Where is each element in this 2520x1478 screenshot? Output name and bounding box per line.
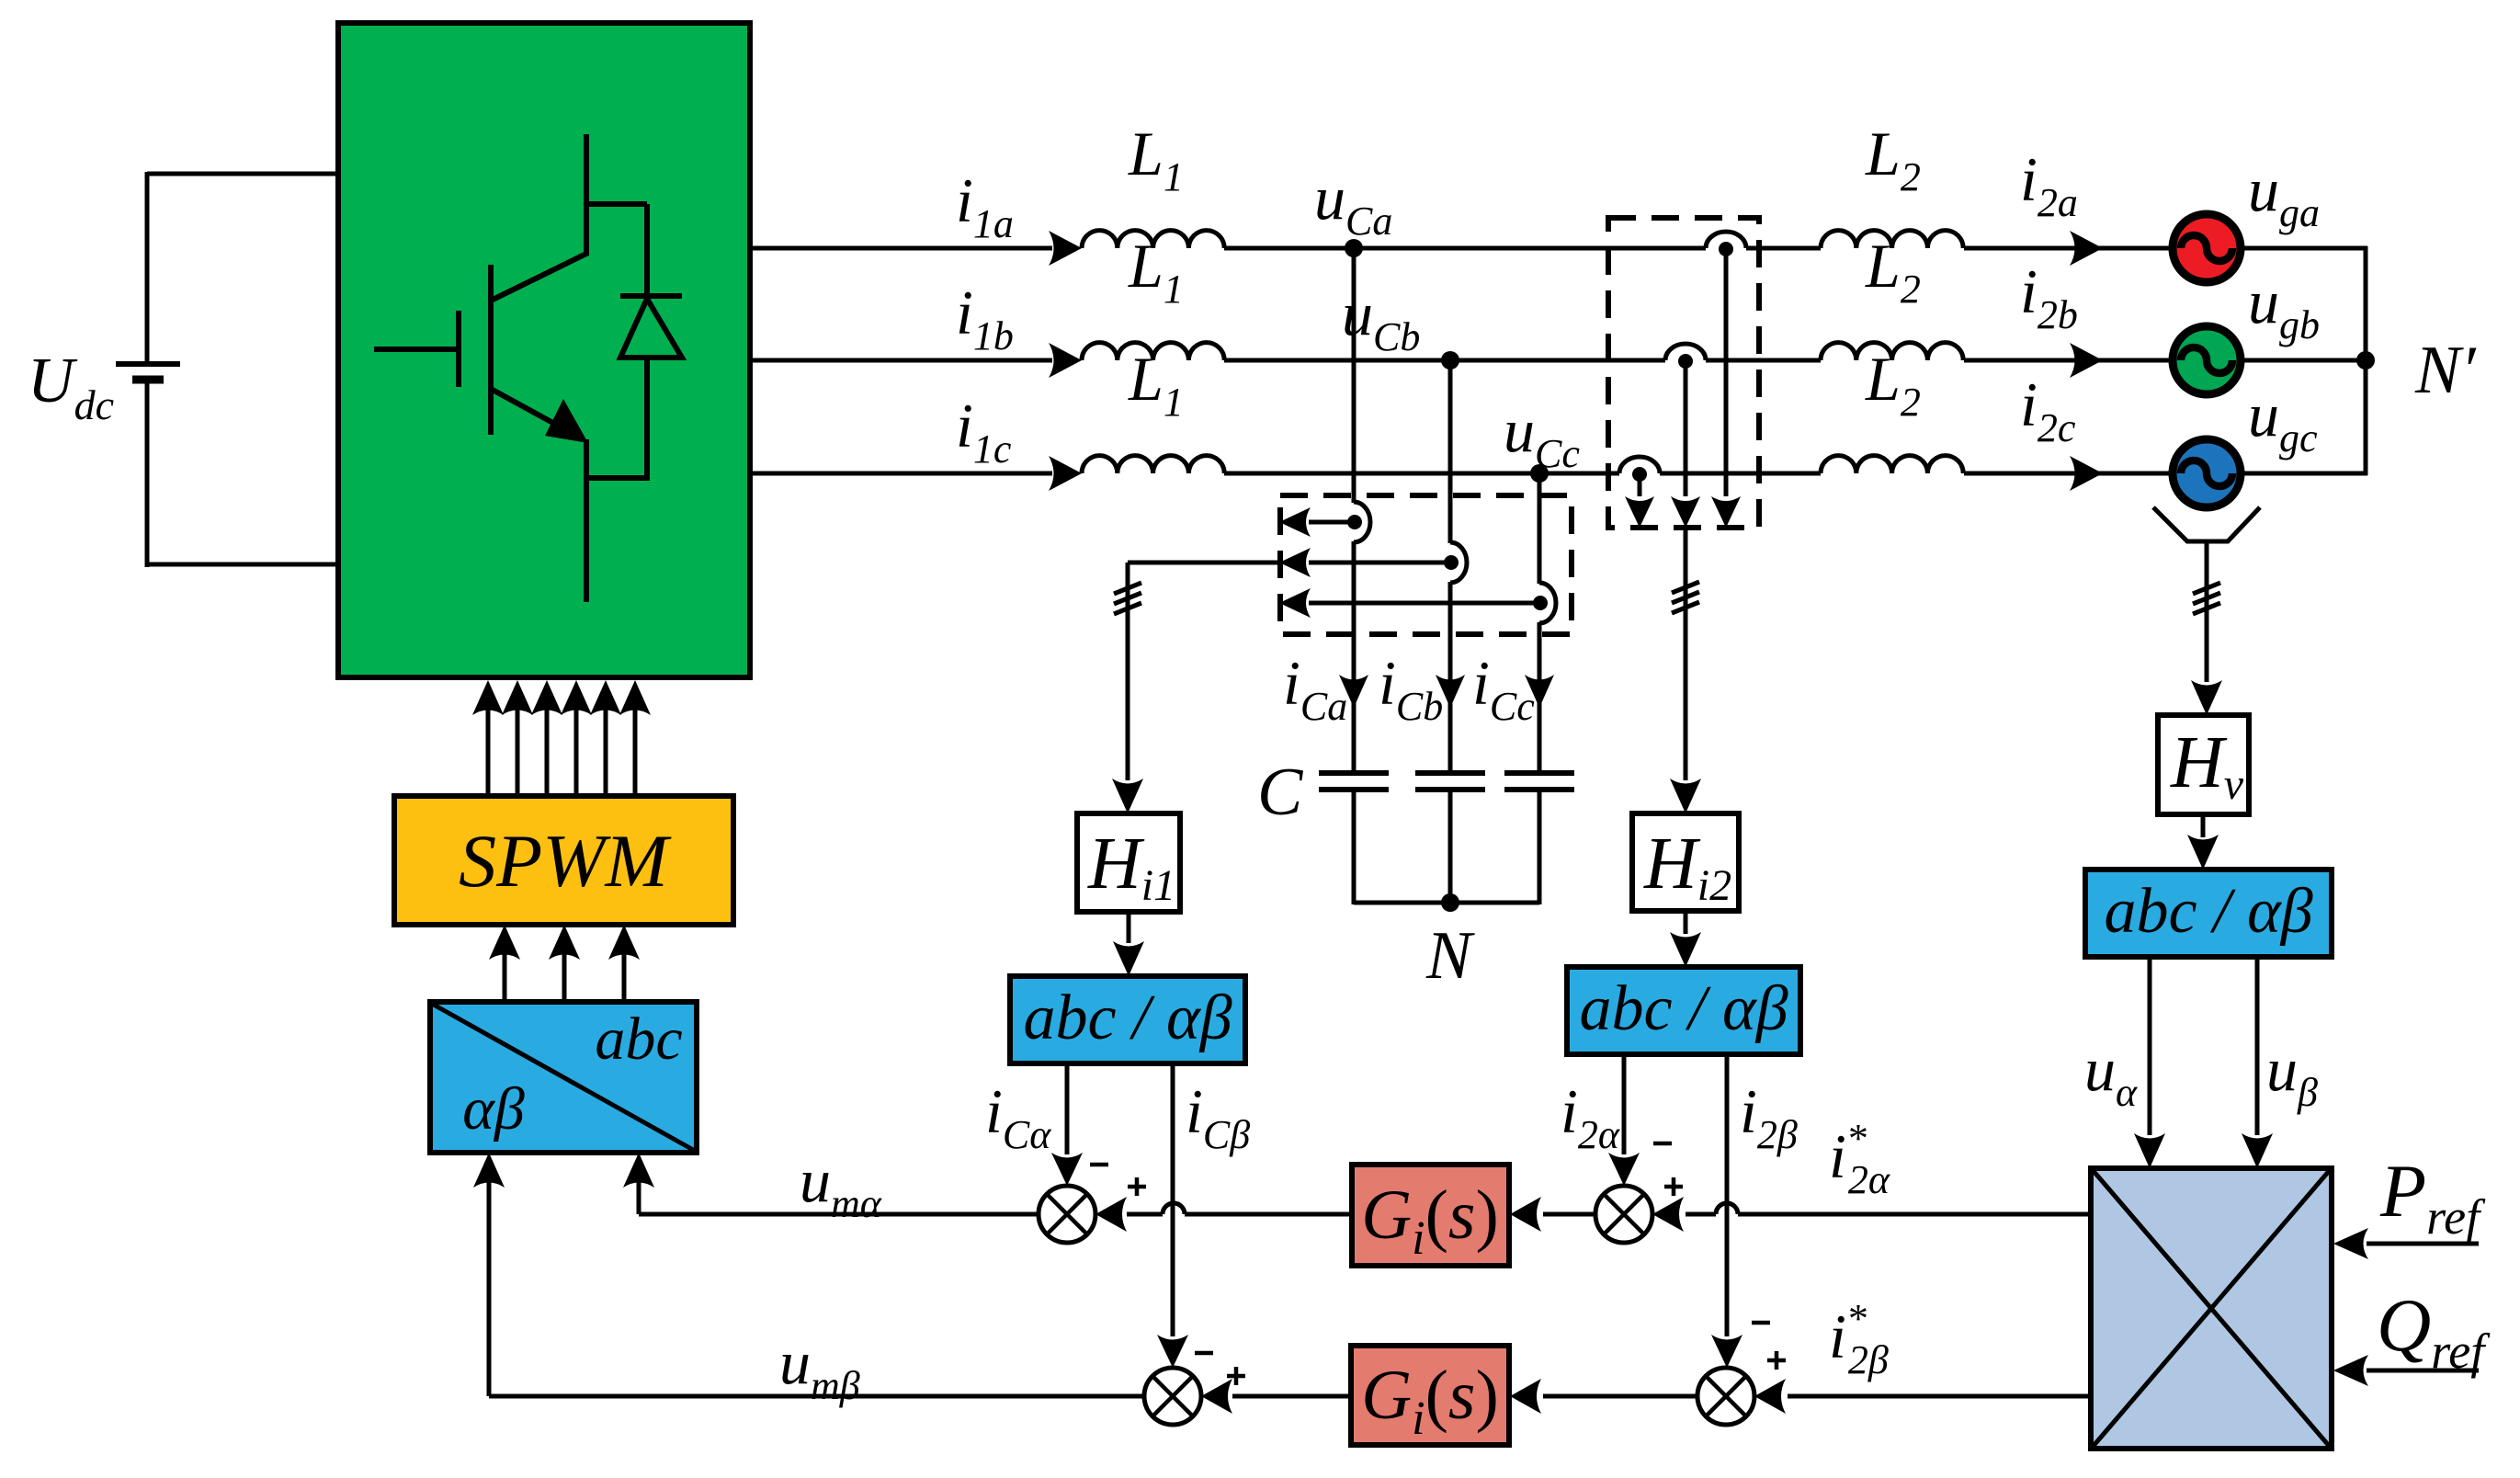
Gi(s) block beta xyxy=(1351,1346,1509,1445)
svg-text:iCa: iCa xyxy=(1283,648,1347,729)
svg-text:i2α: i2α xyxy=(1561,1076,1620,1157)
arrow u_beta xyxy=(2242,1133,2273,1168)
wire inverter to L1 phase a xyxy=(750,246,1052,251)
wire Gi2 to sum3 xyxy=(1232,1394,1351,1399)
svg-text:i1b: i1b xyxy=(956,278,1014,358)
arrow u_mbeta into transform xyxy=(473,1153,505,1188)
wire i_2alpha xyxy=(1622,1054,1627,1154)
power reference block (X) xyxy=(2091,1168,2332,1449)
arrow into Hv xyxy=(2191,680,2222,715)
summing junction sum1 xyxy=(1039,1186,1095,1243)
arrow i_2a xyxy=(2070,231,2103,266)
arrow into Hi2 xyxy=(1670,779,1701,813)
DC source wire left lower xyxy=(145,380,150,567)
node N prime dot xyxy=(2356,351,2375,369)
arrow i_2beta into sum4 xyxy=(1711,1335,1742,1368)
svg-text:umβ: umβ xyxy=(779,1327,860,1408)
inductor L2 phase a xyxy=(1821,231,1963,248)
svg-text:iCβ: iCβ xyxy=(1186,1076,1250,1157)
svg-text:L2: L2 xyxy=(1865,119,1921,199)
wire Gi1 to sum1 xyxy=(1185,1212,1352,1217)
svg-text:abc / αβ: abc / αβ xyxy=(1579,973,1788,1044)
sensor bundle wire to Hi1 xyxy=(1128,561,1278,565)
summing junction sum4 xyxy=(1697,1368,1754,1425)
plus sign sum3 xyxy=(1227,1374,1245,1379)
svg-text:uCc: uCc xyxy=(1504,395,1580,476)
wire X to sum4 (i*_2beta) xyxy=(1788,1394,2091,1399)
arrow i_Calpha into sum1 xyxy=(1051,1153,1083,1186)
inductor L1 phase c xyxy=(1082,456,1224,473)
svg-text:uga: uga xyxy=(2248,154,2320,235)
svg-text:SPWM: SPWM xyxy=(459,819,672,903)
wire L2 to source phase b xyxy=(1964,358,2176,363)
wire L1 to grid sensor phase b xyxy=(1224,358,1665,363)
arrow sensor b (grid) xyxy=(1671,496,1700,528)
arrow i_2alpha into sum2 xyxy=(1608,1153,1640,1186)
sensor pickup capacitor current phase a xyxy=(1354,502,1370,542)
arrow i_1c xyxy=(1049,456,1082,491)
svg-text:Udc: Udc xyxy=(28,346,114,428)
wire sum2 to Gi1 xyxy=(1543,1212,1595,1217)
plus sign sum2 xyxy=(1664,1185,1683,1189)
DC source wire top xyxy=(147,172,338,176)
svg-text:ugc: ugc xyxy=(2248,380,2318,460)
wire sensor to capacitor phase b xyxy=(1448,582,1453,771)
battery U_dc short plate xyxy=(132,376,164,384)
arrow i_Cc xyxy=(1525,675,1554,708)
DC source wire bottom xyxy=(147,563,338,567)
sensor wire b to Hi2 xyxy=(1684,528,1688,780)
inductor L2 phase c xyxy=(1821,456,1963,473)
wire i_Calpha xyxy=(1065,1063,1070,1154)
minus sign sum3 xyxy=(1195,1351,1213,1356)
sensor arrow capacitor current phase b xyxy=(1309,561,1445,565)
wire i_Cbeta xyxy=(1171,1063,1175,1336)
wire capacitor to N bus phase b xyxy=(1448,791,1453,904)
Hi2 block xyxy=(1632,813,1739,911)
wire u_beta xyxy=(2255,957,2260,1135)
voltage pickup (crow foot) at grid xyxy=(2153,507,2260,541)
arrow i_2b xyxy=(2070,343,2103,378)
wire source to neutral bus phase c xyxy=(2241,472,2367,476)
svg-text:Qref: Qref xyxy=(2377,1283,2491,1379)
arrow i_Cbeta into sum3 xyxy=(1157,1335,1188,1368)
SPWM block xyxy=(394,796,733,925)
svg-text:abc / αβ: abc / αβ xyxy=(2104,876,2312,947)
svg-text:L1: L1 xyxy=(1128,119,1184,199)
summing junction sum2 xyxy=(1595,1186,1652,1243)
arrow into sum1 right xyxy=(1095,1197,1127,1232)
plus sign sum1 xyxy=(1128,1185,1146,1189)
node N dot xyxy=(1441,893,1459,912)
inductor L1 phase a xyxy=(1082,231,1224,248)
svg-text:uα: uα xyxy=(2084,1034,2138,1115)
svg-text:Pref: Pref xyxy=(2379,1149,2486,1245)
svg-text:C: C xyxy=(1257,755,1304,830)
wire pickup down to Hv xyxy=(2205,541,2209,682)
arrow sensor a (grid) xyxy=(1711,496,1741,528)
sensor wire down phase c (grid) xyxy=(1638,474,1642,496)
sensor pickup capacitor current phase b xyxy=(1450,542,1467,583)
svg-text:iCα: iCα xyxy=(985,1076,1051,1157)
minus sign sum4 xyxy=(1752,1321,1770,1325)
capacitor C phase a xyxy=(1319,770,1389,776)
current sensor pickup phase c (grid side) xyxy=(1619,457,1660,473)
wire u_Cb node down to sensor xyxy=(1448,360,1453,543)
capacitor C phase c xyxy=(1504,770,1574,776)
wire L2 to source phase a xyxy=(1964,246,2176,251)
wire capacitor to N bus phase c xyxy=(1538,791,1542,904)
svg-text:L2: L2 xyxy=(1865,344,1921,425)
svg-text:N: N xyxy=(1425,918,1475,994)
current sensor pickup phase b (grid side) xyxy=(1665,344,1706,360)
summing junction sum3 xyxy=(1144,1368,1201,1425)
svg-text:ugb: ugb xyxy=(2248,267,2320,347)
arrow i_2c xyxy=(2070,456,2103,491)
wire source to neutral bus phase b xyxy=(2241,358,2367,363)
arrow Hi1 to transform xyxy=(1127,912,1131,943)
3-wire slash marks (Hi2 feed) xyxy=(1672,582,1699,593)
minus sign sum2 xyxy=(1653,1142,1672,1146)
node u_Cc dot xyxy=(1530,464,1549,483)
svg-text:iCc: iCc xyxy=(1472,648,1535,729)
svg-text:L1: L1 xyxy=(1128,344,1184,425)
arrow into Hi1 xyxy=(1112,779,1143,813)
battery U_dc long plate xyxy=(116,361,180,367)
wire sensor to L2 phase c xyxy=(1660,472,1821,476)
sensor wire down phase a (grid) xyxy=(1724,249,1729,496)
wire sensor to L2 phase a xyxy=(1746,246,1821,251)
svg-text:i2a: i2a xyxy=(2020,144,2078,225)
sensor wire down phase b (grid) xyxy=(1684,361,1688,496)
minus sign sum1 xyxy=(1090,1163,1108,1167)
svg-text:L1: L1 xyxy=(1128,231,1184,312)
wire inverter to L1 phase c xyxy=(750,472,1052,476)
wire capacitor to N bus phase a xyxy=(1352,791,1356,904)
grid source u_ga xyxy=(2173,214,2241,282)
arrow u_alpha xyxy=(2134,1133,2165,1168)
grid neutral bus wire xyxy=(2364,246,2368,475)
svg-text:i*2β: i*2β xyxy=(1829,1296,1889,1382)
arrow Hi2 to transform xyxy=(1684,911,1688,934)
svg-text:i2b: i2b xyxy=(2020,256,2078,337)
svg-text:i*2α: i*2α xyxy=(1829,1116,1890,1202)
svg-text:umα: umα xyxy=(800,1145,882,1226)
Hv block xyxy=(2158,715,2249,814)
svg-text:i2c: i2c xyxy=(2020,369,2076,450)
grid source u_gc xyxy=(2173,439,2241,507)
svg-text:uβ: uβ xyxy=(2266,1034,2318,1115)
arrow into sum3 right xyxy=(1201,1379,1232,1414)
inductor L2 phase b xyxy=(1821,343,1963,360)
wire X to sum2 (i*_2alpha) xyxy=(1738,1212,2091,1217)
sensor arrow capacitor current phase c xyxy=(1309,601,1534,606)
node u_Ca dot xyxy=(1345,239,1363,257)
neutral N bus wire xyxy=(1354,901,1539,905)
arrow sensor c (grid) xyxy=(1625,496,1654,528)
svg-text:αβ: αβ xyxy=(462,1075,525,1143)
wire sensor to capacitor phase a xyxy=(1352,541,1356,771)
arrow Q_ref xyxy=(2367,1369,2479,1373)
svg-text:L2: L2 xyxy=(1865,231,1921,312)
arrow into sum2 right xyxy=(1652,1197,1684,1232)
grid source u_gb xyxy=(2173,326,2241,394)
wire sensor to L2 phase b xyxy=(1706,358,1821,363)
wire u_malpha xyxy=(639,1212,1039,1217)
three arrows from transform to SPWM xyxy=(503,934,507,1002)
wire L1 to grid sensor phase a xyxy=(1224,246,1706,251)
DC source wire left upper xyxy=(145,172,150,364)
svg-text:abc / αβ: abc / αβ xyxy=(1023,983,1232,1053)
arrow Hv to transform xyxy=(2201,814,2206,837)
current sensor box (capacitor side, dashed) xyxy=(1280,495,1572,634)
svg-text:uCa: uCa xyxy=(1314,163,1392,244)
wire u_Ca node down to sensor xyxy=(1352,248,1356,503)
node u_Cb dot xyxy=(1441,351,1459,369)
arrow into Gi2 xyxy=(1510,1379,1541,1414)
arrow u_malpha into transform xyxy=(623,1153,654,1188)
Gi(s) block alpha xyxy=(1352,1165,1509,1266)
3-wire slash marks (voltage feed) xyxy=(2193,583,2220,594)
arrow i_Cb xyxy=(1436,675,1465,708)
sensor arrow capacitor current phase a xyxy=(1309,520,1348,525)
svg-text:Gi(s): Gi(s) xyxy=(1361,1357,1499,1445)
arrow into sum4 right xyxy=(1754,1379,1786,1414)
svg-text:N′: N′ xyxy=(2414,333,2477,408)
current sensor pickup phase a (grid side) xyxy=(1706,232,1746,248)
svg-text:i2β: i2β xyxy=(1740,1076,1798,1157)
svg-text:iCb: iCb xyxy=(1379,648,1443,729)
abc/alphabeta block (capacitor current) xyxy=(1010,976,1245,1063)
3-wire slash marks (Hi1 feed) xyxy=(1114,583,1141,594)
capacitor C phase b xyxy=(1415,770,1485,776)
current sensor box (grid side, dashed) xyxy=(1608,218,1759,528)
six gate drive arrows SPWM to inverter xyxy=(486,689,491,796)
svg-text:i1c: i1c xyxy=(956,391,1012,472)
wire source to neutral bus phase a xyxy=(2241,246,2367,251)
sensor pickup capacitor current phase c xyxy=(1539,583,1556,623)
wire i_2beta xyxy=(1725,1054,1730,1336)
IGBT with antiparallel diode inside inverter xyxy=(584,134,589,256)
inductor L1 phase b xyxy=(1082,343,1224,360)
arrow i_1b xyxy=(1049,343,1082,378)
arrow i_1a xyxy=(1049,231,1082,266)
svg-text:abc: abc xyxy=(595,1006,682,1073)
wire L2 to source phase c xyxy=(1964,472,2176,476)
wire L1 to grid sensor phase c xyxy=(1224,472,1619,476)
alphabeta to abc transform block xyxy=(430,1002,697,1153)
svg-text:Gi(s): Gi(s) xyxy=(1361,1177,1499,1265)
wire u_alpha xyxy=(2148,957,2152,1135)
arrow i_Ca xyxy=(1339,675,1368,708)
abc/alphabeta block (grid voltage) xyxy=(2085,870,2332,957)
plus sign sum4 xyxy=(1767,1359,1786,1363)
wire sensor to capacitor phase c xyxy=(1538,622,1542,771)
svg-text:i1a: i1a xyxy=(956,165,1014,246)
arrow into Gi1 xyxy=(1510,1197,1541,1232)
wire u_mbeta xyxy=(489,1394,1144,1399)
wire u_Cc node down to sensor xyxy=(1538,473,1542,584)
Hi1 block xyxy=(1077,813,1180,912)
inverter block (green) xyxy=(338,23,750,677)
wire inverter to L1 phase b xyxy=(750,358,1052,363)
wire sum4 to Gi2 xyxy=(1543,1394,1697,1399)
arrow P_ref xyxy=(2367,1242,2479,1246)
abc/alphabeta block (grid current) xyxy=(1567,967,1800,1054)
